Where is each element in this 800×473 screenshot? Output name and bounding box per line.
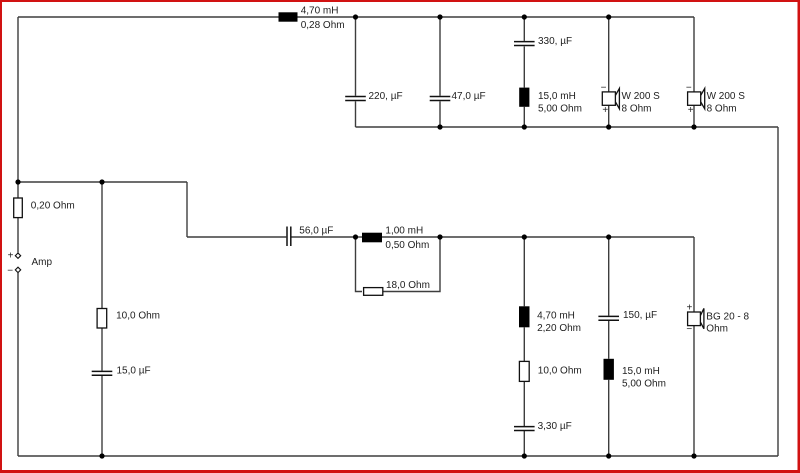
wire top rail left segment: [18, 16, 279, 18]
capacitor 330uF plates: [514, 42, 535, 46]
svg-text:4,70 mH: 4,70 mH: [301, 6, 339, 17]
svg-text:2,20 Ohm: 2,20 Ohm: [537, 323, 581, 334]
svg-text:10,0 Ohm: 10,0 Ohm: [538, 365, 582, 376]
wire node A to 1.00mH inductor: [356, 236, 363, 238]
svg-text:18,0 Ohm: 18,0 Ohm: [386, 280, 430, 291]
resistor 18.0 Ohm: [364, 288, 383, 296]
svg-text:5,00 Ohm: 5,00 Ohm: [538, 103, 582, 114]
wire 150uF to 15mH: [608, 321, 610, 359]
wire 47uF to mid rail: [439, 101, 441, 127]
inductor 1.00mH 0.50 Ohm: [362, 233, 382, 243]
svg-text:5,00 Ohm: 5,00 Ohm: [622, 378, 666, 389]
junction node mid rail c4: [606, 124, 611, 129]
wire mid-left horizontal at y=182: [18, 181, 187, 183]
wire branch c1 top (rail to 220uF): [355, 17, 357, 96]
svg-text:8 Ohm: 8 Ohm: [622, 103, 652, 114]
wire bottom rail: [18, 455, 778, 457]
wire 15mH to bottom rail: [608, 380, 610, 456]
junction node top rail c4: [606, 14, 611, 19]
svg-text:+: +: [687, 303, 693, 314]
svg-text:W 200 S: W 200 S: [622, 91, 661, 102]
wire branch c2 top (rail to 47uF): [439, 17, 441, 96]
svg-text:0,28 Ohm: 0,28 Ohm: [301, 20, 345, 31]
svg-text:−: −: [601, 83, 607, 94]
speaker BG 20 - 8 Ohm: [688, 308, 704, 328]
svg-text:0,50 Ohm: 0,50 Ohm: [385, 240, 429, 251]
wire right vertical: [777, 127, 779, 456]
svg-text:15,0 µF: 15,0 µF: [117, 365, 151, 376]
junction node top rail c2: [437, 14, 442, 19]
svg-text:47,0 µF: 47,0 µF: [452, 91, 486, 102]
svg-text:4,70 mH: 4,70 mH: [537, 310, 575, 321]
wire branch x=102 (node to 10 Ohm): [101, 182, 103, 309]
wire 3.30uF to bottom rail: [523, 431, 525, 456]
svg-text:−: −: [686, 324, 692, 335]
inductor 15.0mH 5.00 Ohm (bottom section): [604, 359, 614, 380]
junction node bottom rail x102: [99, 453, 104, 458]
wire mid rail: [356, 126, 779, 128]
wire left vertical (top rail to 0.20 Ohm resistor): [17, 17, 19, 198]
wire 56uF to node A: [292, 236, 356, 238]
wire W200S no.1 to mid rail: [608, 105, 610, 127]
resistor 10.0 Ohm (middle branch): [519, 361, 529, 381]
capacitor 220uF plates: [345, 97, 366, 101]
wire branch c5 top (rail to W200S no.2): [693, 17, 695, 92]
wire 15mH to mid rail: [523, 107, 525, 127]
wire top rail right segment: [298, 16, 695, 18]
junction node top rail c3: [522, 14, 527, 19]
capacitor 3.30uF plates: [514, 427, 535, 431]
svg-text:W 200 S: W 200 S: [707, 91, 746, 102]
wire 220uF to mid rail: [355, 101, 357, 127]
junction node bottom rail c3: [522, 453, 527, 458]
svg-text:15,0 mH: 15,0 mH: [622, 366, 660, 377]
svg-text:15,0 mH: 15,0 mH: [538, 91, 576, 102]
wire 10 Ohm to 15uF cap: [101, 328, 103, 371]
junction node A (56uF right): [353, 234, 358, 239]
wire Amp - terminal down to bottom rail: [17, 273, 19, 456]
capacitor 15uF plates: [92, 371, 113, 375]
wire branch c3 bottom (to 4.70mH): [523, 237, 525, 306]
svg-text:BG 20 - 8: BG 20 - 8: [706, 311, 749, 322]
capacitor 150uF plates: [598, 316, 619, 320]
wire 4.70mH to 10 Ohm: [523, 327, 525, 361]
inductor 4.70mH 2.20 Ohm (bottom section): [519, 306, 530, 327]
Amp + terminal diamond: [15, 253, 20, 258]
wire 330uF to 15mH inductor: [523, 46, 525, 87]
junction node top rail c1: [353, 14, 358, 19]
inductor 15.0mH 5.00 Ohm (top section): [519, 88, 529, 107]
junction node branch x102: [99, 179, 104, 184]
capacitor 56uF plates (horizontal): [287, 227, 291, 247]
svg-text:56,0 µF: 56,0 µF: [299, 226, 333, 237]
wire branch c4 top (rail to W200S no.1): [608, 17, 610, 92]
svg-text:330, µF: 330, µF: [538, 36, 572, 47]
junction node mid rail c5: [691, 124, 696, 129]
speaker W 200 S no.2: [688, 88, 705, 108]
wire drop to BG20 speaker: [693, 237, 695, 312]
svg-text:220, µF: 220, µF: [369, 91, 403, 102]
svg-text:+: +: [8, 251, 14, 262]
svg-text:10,0 Ohm: 10,0 Ohm: [116, 311, 160, 322]
Amp - terminal diamond: [15, 267, 20, 272]
wire to 56uF capacitor: [187, 236, 286, 238]
inductor 4.70mH 0.28 Ohm (top, series): [279, 12, 298, 21]
junction node lower rail c4: [606, 234, 611, 239]
wire BG20 speaker to bottom rail: [693, 326, 695, 456]
svg-text:−: −: [686, 83, 692, 94]
junction node lower rail c3: [522, 234, 527, 239]
junction node mid rail c2: [437, 124, 442, 129]
wire W200S no.2 to mid rail: [693, 105, 695, 127]
svg-text:0,20 Ohm: 0,20 Ohm: [31, 200, 75, 211]
svg-text:150, µF: 150, µF: [623, 310, 657, 321]
resistor 10.0 Ohm (left branch): [97, 309, 107, 329]
wire 1.00mH inductor to node B: [382, 236, 440, 238]
junction node bottom rail c4: [606, 453, 611, 458]
wire 15uF cap to bottom rail: [101, 376, 103, 456]
svg-text:8 Ohm: 8 Ohm: [707, 103, 737, 114]
wire lower mid rail: [440, 236, 694, 238]
svg-text:3,30 µF: 3,30 µF: [538, 421, 572, 432]
wire resistor to Amp + terminal: [17, 218, 19, 253]
junction node left wire y182: [15, 179, 20, 184]
resistor 0.20 Ohm: [14, 198, 23, 218]
capacitor 47uF plates: [430, 97, 451, 101]
wire corner drop x=187: [186, 182, 188, 237]
wire parallel branch down-right through 18 Ohm: [356, 237, 363, 292]
svg-text:+: +: [688, 105, 694, 116]
svg-text:Ohm: Ohm: [706, 324, 728, 335]
wire 10 Ohm to 3.30uF: [523, 381, 525, 426]
svg-text:+: +: [602, 105, 608, 116]
wire 18 Ohm to node B: [382, 237, 441, 292]
junction node B (1.00mH right): [437, 234, 442, 239]
svg-text:Amp: Amp: [32, 257, 53, 268]
svg-text:1,00 mH: 1,00 mH: [385, 226, 423, 237]
speaker W 200 S no.1: [602, 88, 619, 108]
junction node bottom rail c5: [691, 453, 696, 458]
wire branch c3 top (rail to 330uF): [523, 17, 525, 41]
junction node mid rail c3: [522, 124, 527, 129]
svg-text:−: −: [7, 265, 13, 276]
wire branch c4 bottom (to 150uF): [608, 237, 610, 316]
